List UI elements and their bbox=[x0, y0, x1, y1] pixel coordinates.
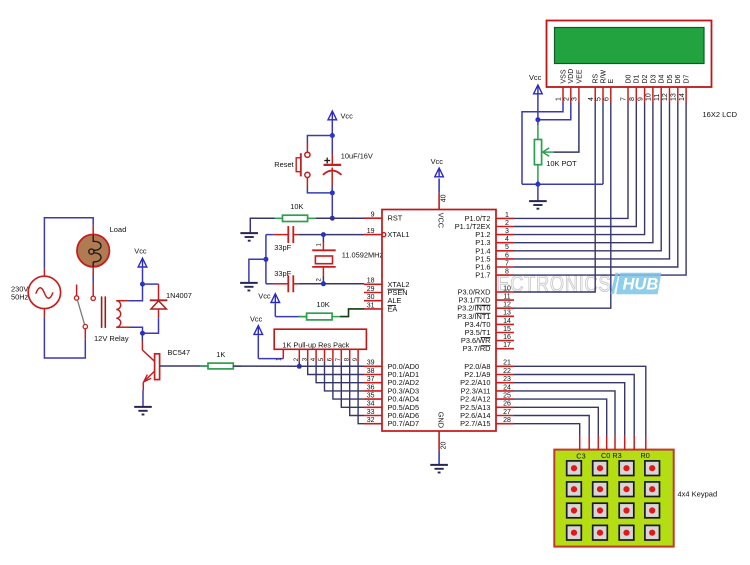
overline EA bbox=[388, 304, 397, 306]
wire button bottom bbox=[306, 178, 308, 187]
node VDD Vcc junction bbox=[535, 117, 540, 122]
XTAL1 input marker bbox=[382, 233, 386, 237]
pin 15 P3.5/T1 stub bbox=[496, 332, 514, 334]
svg-text:3: 3 bbox=[505, 228, 509, 235]
overline RD (P3.7) bbox=[481, 345, 491, 347]
node pot bottom junction bbox=[535, 182, 540, 187]
LCD pin 8 stub bbox=[635, 87, 637, 103]
wire res pack pin 3 to P0.1 bbox=[308, 362, 364, 375]
wire res pack pin 2 to P0.0 bbox=[298, 362, 300, 366]
capacitor plus sign bbox=[324, 160, 330, 162]
LCD pin 2 stub bbox=[570, 87, 572, 103]
pin 38 P0.1/AD1 stub bbox=[364, 374, 382, 376]
keypad button R1C3 bbox=[645, 482, 660, 497]
svg-text:1: 1 bbox=[317, 243, 323, 247]
pot wiper arrow / wire VEE bbox=[554, 103, 579, 153]
res pack pin 4 bbox=[315, 349, 317, 362]
keypad button R3C3 bbox=[645, 525, 660, 540]
wire AC top to load bbox=[43, 268, 45, 276]
svg-text:13: 13 bbox=[503, 310, 511, 317]
svg-text:18: 18 bbox=[367, 278, 375, 285]
IC U1 8051 body bbox=[382, 210, 496, 432]
wire P0.0 row to chip bbox=[299, 365, 364, 367]
wire 1K to P0 node bbox=[233, 365, 299, 367]
keypad pin stub 3 bbox=[597, 435, 599, 450]
pin 14 P3.4/T0 stub bbox=[496, 323, 514, 325]
LCD pin 6 stub bbox=[610, 87, 612, 103]
pin 25 P2.4/A12 stub bbox=[496, 398, 514, 400]
Vcc arrow (chip) bbox=[435, 168, 444, 177]
svg-text:2: 2 bbox=[317, 278, 323, 282]
keypad button R0C0 bbox=[567, 461, 582, 476]
svg-text:29: 29 bbox=[367, 286, 375, 293]
node collector junction bbox=[140, 331, 145, 336]
svg-text:6: 6 bbox=[604, 97, 611, 101]
node P0.0 junction bbox=[297, 364, 302, 369]
capacitor C3 10uF/16V bbox=[331, 136, 333, 154]
Vcc arrow (reset) bbox=[328, 111, 337, 120]
svg-text:4x4 Keypad: 4x4 Keypad bbox=[678, 489, 718, 498]
svg-text:D0: D0 bbox=[625, 74, 632, 83]
svg-text:D7: D7 bbox=[684, 74, 691, 83]
wire D0 to P1.0 bbox=[514, 103, 628, 219]
wire P2.3 to keypad bbox=[514, 391, 615, 435]
svg-text:Vcc: Vcc bbox=[341, 112, 354, 121]
res pack pin 9 bbox=[357, 349, 359, 362]
ground (crystal caps) bbox=[240, 282, 258, 284]
wire caps left rail bbox=[265, 235, 267, 284]
relay contact common terminal bbox=[83, 324, 87, 328]
keypad pin stub 6 bbox=[624, 435, 626, 450]
LCD pin 7 stub bbox=[627, 87, 629, 103]
res pack pin 7 bbox=[340, 349, 342, 362]
wire VDD to Vcc bbox=[538, 103, 571, 120]
pin 32 P0.7/AD7 stub bbox=[364, 423, 382, 425]
push button Reset bbox=[305, 152, 310, 157]
svg-text:2: 2 bbox=[505, 220, 509, 227]
wire pot bottom ground rail bbox=[522, 183, 603, 185]
relay K1 coil bbox=[116, 301, 120, 328]
svg-text:R/W: R/W bbox=[600, 70, 607, 84]
diode D1 1N4007 bbox=[158, 284, 160, 300]
svg-text:14: 14 bbox=[679, 93, 686, 101]
svg-text:27: 27 bbox=[503, 409, 511, 416]
watermark HUB box bbox=[616, 273, 661, 294]
pin 6 P1.5 stub bbox=[496, 258, 514, 260]
svg-text:HUB: HUB bbox=[623, 275, 659, 293]
svg-text:P2.7/A15: P2.7/A15 bbox=[460, 419, 490, 428]
wire RW down to ground rail bbox=[602, 103, 604, 185]
keypad button R0C2 bbox=[619, 461, 634, 476]
transistor Q1 BC547 bbox=[141, 334, 143, 341]
LCD LCD1 16X2 body bbox=[547, 21, 712, 88]
ground (emitter) bbox=[134, 406, 152, 408]
svg-text:10K: 10K bbox=[317, 300, 330, 309]
Vcc arrow (LCD) bbox=[534, 85, 543, 94]
wire P2.5 to keypad bbox=[514, 407, 598, 435]
wire junction to ground bbox=[537, 184, 539, 201]
wire RS to P3.0 bbox=[514, 103, 595, 293]
node XTAL2 junction bbox=[321, 281, 326, 286]
wire AC bottom rail bbox=[43, 309, 45, 317]
keypad button R1C0 bbox=[567, 482, 582, 497]
svg-text:9: 9 bbox=[371, 212, 375, 219]
svg-text:VDD: VDD bbox=[568, 69, 575, 84]
svg-text:20: 20 bbox=[440, 442, 447, 450]
wire load to relay contact bbox=[92, 267, 94, 275]
wire XTAL1 row bbox=[298, 234, 364, 236]
svg-text:16: 16 bbox=[503, 334, 511, 341]
Vcc arrow (EA) bbox=[271, 294, 280, 303]
overline INT1 (P3.3) bbox=[476, 312, 491, 314]
LCD pin 12 stub bbox=[669, 87, 671, 103]
wire D1 to P1.1 bbox=[514, 103, 636, 227]
keypad button R1C1 bbox=[593, 482, 608, 497]
wire E to P3.2 bbox=[514, 103, 611, 309]
overline WR (P3.6) bbox=[481, 337, 491, 339]
LCD screen bbox=[555, 28, 705, 64]
wire D6 to P1.6 bbox=[514, 103, 678, 268]
wire res pack pin 5 to P0.3 bbox=[325, 362, 365, 391]
svg-text:16X2 LCD: 16X2 LCD bbox=[703, 110, 738, 119]
svg-text:26: 26 bbox=[503, 401, 511, 408]
wire emitter to ground bbox=[142, 390, 144, 406]
relay switch blade bbox=[77, 300, 84, 325]
node XTAL1 junction bbox=[321, 232, 326, 237]
svg-text:10K POT: 10K POT bbox=[546, 159, 577, 168]
svg-text:39: 39 bbox=[367, 360, 375, 367]
pin 36 P0.3/AD3 stub bbox=[364, 390, 382, 392]
wire coil bottom to collector node bbox=[116, 326, 129, 328]
keypad pin stub 2 bbox=[588, 435, 590, 450]
LCD pin 14 stub bbox=[685, 87, 687, 103]
pin 37 P0.2/AD2 stub bbox=[364, 382, 382, 384]
wire P2.6 to keypad bbox=[514, 416, 589, 436]
svg-text:33pF: 33pF bbox=[274, 243, 291, 252]
svg-text:50Hz: 50Hz bbox=[11, 293, 29, 302]
svg-text:VCC: VCC bbox=[437, 213, 446, 228]
pin 40 VCC wire bbox=[438, 193, 440, 210]
keypad button R3C0 bbox=[567, 525, 582, 540]
wire to reset button bbox=[307, 136, 332, 143]
svg-text:9: 9 bbox=[637, 97, 644, 101]
ground (10K reset) bbox=[240, 232, 258, 234]
lamp Load bbox=[77, 234, 109, 266]
svg-text:8: 8 bbox=[505, 269, 509, 276]
svg-text:19: 19 bbox=[367, 228, 375, 235]
svg-text:D6: D6 bbox=[675, 74, 682, 83]
LCD pin 9 stub bbox=[644, 87, 646, 103]
res pack pin 8 bbox=[349, 349, 351, 362]
svg-text:XTAL1: XTAL1 bbox=[388, 230, 410, 239]
wire XTAL2 row bbox=[298, 283, 364, 285]
svg-text:11: 11 bbox=[503, 294, 510, 301]
svg-text:C3: C3 bbox=[576, 452, 585, 461]
svg-text:E: E bbox=[608, 79, 615, 84]
pot RV1 10K POT body bbox=[537, 120, 539, 125]
wire rail to ground bbox=[249, 259, 266, 282]
pin 9 RST stub bbox=[364, 217, 382, 219]
svg-text:23: 23 bbox=[503, 376, 511, 383]
svg-text:13: 13 bbox=[671, 93, 678, 101]
crystal X1 11.0592MHz bbox=[322, 235, 324, 242]
svg-text:40: 40 bbox=[440, 194, 447, 202]
svg-text:Vcc: Vcc bbox=[134, 247, 147, 256]
watermark slash bbox=[611, 273, 619, 294]
wire res pack pin 8 to P0.6 bbox=[350, 362, 364, 416]
wire 10K to ground bbox=[250, 218, 274, 233]
keypad KP1 4x4 body bbox=[554, 450, 673, 547]
svg-text:33pF: 33pF bbox=[274, 269, 291, 278]
wire D7 to P1.7 bbox=[514, 103, 686, 276]
wire Vcc to pack pin 1 bbox=[258, 358, 283, 360]
pin 30 ALE stub bbox=[364, 300, 382, 302]
svg-text:10: 10 bbox=[646, 93, 653, 101]
res pack pin 2 bbox=[298, 349, 300, 362]
wire D3 to P1.3 bbox=[514, 103, 653, 243]
pin 11 P3.1/TXD stub bbox=[496, 299, 514, 301]
svg-text:12V Relay: 12V Relay bbox=[94, 334, 129, 343]
pin 29 PSEN stub bbox=[364, 292, 382, 294]
svg-text:30: 30 bbox=[367, 294, 375, 301]
svg-text:5: 5 bbox=[596, 97, 603, 101]
LCD pin 4 stub bbox=[594, 87, 596, 103]
AC source V1 230V 50Hz bbox=[28, 276, 60, 308]
wire D4 to P1.4 bbox=[514, 103, 661, 251]
wire 10K to EA pin bbox=[340, 309, 364, 317]
svg-text:36: 36 bbox=[367, 384, 375, 391]
svg-text:1: 1 bbox=[505, 212, 509, 219]
node cap bottom junction bbox=[330, 190, 335, 195]
svg-text:4: 4 bbox=[588, 97, 595, 101]
svg-text:22: 22 bbox=[503, 368, 511, 375]
pin 4 P1.3 stub bbox=[496, 242, 514, 244]
svg-text:C0 R3: C0 R3 bbox=[601, 451, 622, 460]
svg-text:Load: Load bbox=[110, 225, 127, 234]
svg-text:11: 11 bbox=[654, 94, 661, 101]
svg-text:8: 8 bbox=[629, 97, 636, 101]
LCD pin 13 stub bbox=[677, 87, 679, 103]
svg-text:12: 12 bbox=[662, 93, 669, 101]
keypad button R2C2 bbox=[619, 503, 634, 518]
svg-text:1N4007: 1N4007 bbox=[166, 291, 192, 300]
res pack pin 3 bbox=[307, 349, 309, 362]
svg-text:17: 17 bbox=[503, 342, 511, 349]
svg-text:Vcc: Vcc bbox=[250, 314, 263, 323]
pin 21 P2.0/A8 stub bbox=[496, 365, 514, 367]
capacitor C2 33pF bbox=[293, 283, 298, 285]
Vcc arrow (relay) bbox=[138, 258, 147, 267]
pin 8 P1.7 stub bbox=[496, 274, 514, 276]
keypad button R0C1 bbox=[593, 461, 608, 476]
svg-text:Vcc: Vcc bbox=[258, 291, 271, 300]
pin 39 P0.0/AD0 stub bbox=[364, 365, 382, 367]
wire Vcc to 10K bbox=[275, 316, 306, 318]
svg-text:7: 7 bbox=[505, 260, 509, 267]
svg-text:D1: D1 bbox=[634, 74, 641, 83]
keypad button R3C1 bbox=[593, 525, 608, 540]
res pack pin 1 bbox=[282, 349, 284, 358]
wire coil top to Vcc node bbox=[116, 300, 128, 302]
keypad pin stub 1 bbox=[579, 435, 581, 450]
resistor R3 10K bbox=[299, 316, 307, 318]
overline PSEN bbox=[388, 288, 405, 290]
LCD pin 10 stub bbox=[652, 87, 654, 103]
pin 10 P3.0/RXD stub bbox=[496, 291, 514, 293]
LCD pin 1 stub bbox=[562, 87, 564, 103]
svg-text:Reset: Reset bbox=[274, 160, 293, 169]
keypad button R2C3 bbox=[645, 503, 660, 518]
ground (chip GND) bbox=[430, 464, 448, 466]
pin 13 P3.3/INT1 stub bbox=[496, 315, 514, 317]
svg-text:1K Pull-up Res Pack: 1K Pull-up Res Pack bbox=[282, 340, 349, 349]
svg-text:P0.7/AD7: P0.7/AD7 bbox=[388, 419, 420, 428]
svg-text:11.0592MHz: 11.0592MHz bbox=[342, 251, 384, 260]
svg-text:33: 33 bbox=[367, 409, 375, 416]
relay contact terminal stub bbox=[76, 285, 78, 296]
pin 28 P2.7/A15 stub bbox=[496, 423, 514, 425]
pin 12 P3.2/INT0 stub bbox=[496, 307, 514, 309]
svg-text:Vcc: Vcc bbox=[529, 73, 542, 82]
pin 23 P2.2/A10 stub bbox=[496, 382, 514, 384]
svg-text:1: 1 bbox=[556, 97, 563, 101]
wire P2.2 to keypad bbox=[514, 383, 625, 435]
svg-text:D3: D3 bbox=[650, 74, 657, 83]
svg-text:10K: 10K bbox=[290, 202, 303, 211]
svg-text:RST: RST bbox=[388, 214, 403, 223]
resistor pack RP1 1K Pull-up Res Pack bbox=[274, 329, 366, 349]
wire diode to collector node bbox=[145, 317, 159, 333]
pin 33 P0.6/AD6 stub bbox=[364, 415, 382, 417]
svg-text:6: 6 bbox=[505, 252, 509, 259]
Vcc arrow (res pack) bbox=[254, 326, 263, 335]
keypad button R3C2 bbox=[619, 525, 634, 540]
wire res pack pin 6 to P0.4 bbox=[333, 362, 364, 399]
node reset top junction bbox=[330, 133, 335, 138]
pin 34 P0.5/AD5 stub bbox=[364, 406, 382, 408]
res pack pin 5 bbox=[324, 349, 326, 362]
wire res pack pin 4 to P0.2 bbox=[316, 362, 364, 383]
LCD pin 11 stub bbox=[660, 87, 662, 103]
pin 2 P1.1/T2EX stub bbox=[496, 226, 514, 228]
svg-text:7: 7 bbox=[621, 97, 628, 101]
svg-text:RS: RS bbox=[593, 73, 600, 83]
wire D2 to P1.2 bbox=[514, 103, 645, 235]
wire res pack pin 7 to P0.5 bbox=[341, 362, 364, 407]
svg-text:37: 37 bbox=[367, 376, 375, 383]
resistor R2 1K bbox=[200, 365, 208, 367]
node relay Vcc junction bbox=[140, 282, 145, 287]
keypad button R0C3 bbox=[645, 461, 660, 476]
svg-text:GND: GND bbox=[437, 412, 446, 428]
keypad pin stub 8 bbox=[645, 435, 647, 450]
pin 1 P1.0/T2 stub bbox=[496, 217, 514, 219]
svg-text:21: 21 bbox=[503, 360, 511, 367]
wire P2.7 to keypad bbox=[514, 424, 580, 435]
pin 24 P2.3/A11 stub bbox=[496, 390, 514, 392]
pin 19 XTAL1 stub bbox=[364, 234, 382, 236]
svg-text:3: 3 bbox=[572, 97, 579, 101]
pin 3 P1.2 stub bbox=[496, 234, 514, 236]
svg-text:VSS: VSS bbox=[560, 69, 567, 83]
svg-text:25: 25 bbox=[503, 393, 511, 400]
pin 35 P0.4/AD4 stub bbox=[364, 398, 382, 400]
pin 5 P1.4 stub bbox=[496, 250, 514, 252]
resistor R1 10K bbox=[275, 217, 283, 219]
pin 31 EA stub bbox=[364, 308, 382, 310]
pin 16 P3.6/WR stub bbox=[496, 340, 514, 342]
keypad pin stub 7 bbox=[633, 435, 635, 450]
svg-text:14: 14 bbox=[503, 318, 511, 325]
keypad button R2C1 bbox=[593, 503, 608, 518]
svg-text:4: 4 bbox=[505, 236, 509, 243]
svg-text:VEE: VEE bbox=[576, 69, 583, 83]
svg-text:1: 1 bbox=[276, 357, 282, 361]
pin 7 P1.6 stub bbox=[496, 266, 514, 268]
node rail mid junction bbox=[263, 257, 268, 262]
wire junction to diode bbox=[143, 283, 159, 285]
pin 22 P2.1/A9 stub bbox=[496, 374, 514, 376]
pin 26 P2.5/A13 stub bbox=[496, 406, 514, 408]
keypad pin stub 5 bbox=[614, 435, 616, 450]
svg-text:24: 24 bbox=[503, 384, 511, 391]
svg-text:D4: D4 bbox=[659, 74, 666, 83]
pin 18 XTAL2 stub bbox=[364, 283, 382, 285]
svg-text:R0: R0 bbox=[641, 451, 650, 460]
svg-text:10uF/16V: 10uF/16V bbox=[341, 152, 373, 161]
keypad pin stub 4 bbox=[606, 435, 608, 450]
wire base bbox=[160, 365, 208, 367]
relay contact terminal (load side) bbox=[91, 296, 95, 300]
wire D5 to P1.5 bbox=[514, 103, 670, 259]
svg-text:BC547: BC547 bbox=[168, 348, 191, 357]
svg-text:D5: D5 bbox=[667, 74, 674, 83]
svg-text:5: 5 bbox=[505, 244, 509, 251]
LCD pin 3 stub bbox=[578, 87, 580, 103]
svg-text:10: 10 bbox=[503, 285, 511, 292]
svg-text:35: 35 bbox=[367, 393, 375, 400]
svg-text:38: 38 bbox=[367, 368, 375, 375]
svg-text:Vcc: Vcc bbox=[431, 157, 444, 166]
svg-text:32: 32 bbox=[367, 417, 375, 424]
keypad button R2C0 bbox=[567, 503, 582, 518]
overline INT0 (P3.2) bbox=[476, 304, 491, 306]
wire P2.4 to keypad bbox=[514, 399, 607, 435]
res pack pin 6 bbox=[332, 349, 334, 362]
wire to RST bbox=[331, 193, 333, 218]
svg-text:28: 28 bbox=[503, 417, 511, 424]
keypad button R1C2 bbox=[619, 482, 634, 497]
svg-text:34: 34 bbox=[367, 401, 375, 408]
wire VSS to left rail bbox=[522, 103, 563, 185]
capacitor C1 33pF bbox=[293, 234, 298, 236]
ground (LCD) bbox=[529, 200, 547, 202]
wire res pack pin 9 to P0.7 bbox=[358, 362, 364, 424]
svg-text:12: 12 bbox=[503, 302, 511, 309]
svg-text:D2: D2 bbox=[642, 74, 649, 83]
LCD pin 5 stub bbox=[602, 87, 604, 103]
svg-text:1K: 1K bbox=[216, 350, 225, 359]
pin 17 P3.7/RD stub bbox=[496, 348, 514, 350]
svg-text:2: 2 bbox=[564, 97, 571, 101]
wire P2.1 to keypad bbox=[514, 375, 634, 436]
wire P2.0 to keypad bbox=[514, 366, 646, 435]
pin 27 P2.6/A14 stub bbox=[496, 415, 514, 417]
pin 20 GND wire bbox=[438, 431, 440, 451]
watermark text ELECTRONICS bbox=[474, 272, 612, 298]
relay K1 core bbox=[101, 296, 103, 328]
svg-text:31: 31 bbox=[367, 302, 375, 309]
